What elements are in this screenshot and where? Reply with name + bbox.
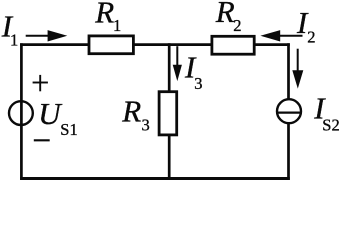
svg-text:R: R <box>215 0 235 29</box>
current source IS2 (circle with horizontal bar) <box>277 99 301 123</box>
resistor R2 <box>212 36 254 54</box>
wire: top horizontal from left corner to right corner <box>20 43 290 46</box>
label R3 <box>121 94 149 135</box>
current arrow I3 (downward, right of middle wire) <box>173 46 182 81</box>
wire: middle branch vertical (node I3 / R3) <box>168 43 171 180</box>
current arrow into IS2 (downward, right of right wire) <box>292 49 303 89</box>
svg-text:1: 1 <box>10 31 18 50</box>
resistor R3 <box>159 92 177 135</box>
label I2 <box>296 5 315 47</box>
current arrow I1 (rightward, above top wire) <box>26 30 68 41</box>
svg-text:R: R <box>94 0 114 30</box>
label R1 <box>94 0 121 35</box>
label R2 <box>215 0 242 35</box>
svg-text:S2: S2 <box>322 115 339 134</box>
svg-text:3: 3 <box>194 74 202 93</box>
wire: left branch vertical (through US1) <box>20 43 23 180</box>
voltage source US1 (circle, wire passes through) <box>9 101 33 125</box>
svg-text:3: 3 <box>142 116 150 135</box>
label I1 <box>1 9 18 50</box>
US1 minus sign <box>34 139 50 141</box>
wire: bottom horizontal return <box>20 177 290 180</box>
US1 plus sign <box>33 75 48 91</box>
current arrow I2 (leftward, above top wire right section) <box>260 30 302 41</box>
svg-text:2: 2 <box>307 28 315 47</box>
label I3 <box>184 50 202 93</box>
label US1 <box>38 96 77 139</box>
svg-text:1: 1 <box>113 16 121 35</box>
label IS2 <box>313 91 339 135</box>
resistor R1 <box>89 36 133 54</box>
svg-text:S1: S1 <box>60 120 77 139</box>
svg-text:R: R <box>121 94 141 129</box>
svg-text:2: 2 <box>233 16 241 35</box>
wire: right branch vertical (to IS2) <box>287 43 290 180</box>
